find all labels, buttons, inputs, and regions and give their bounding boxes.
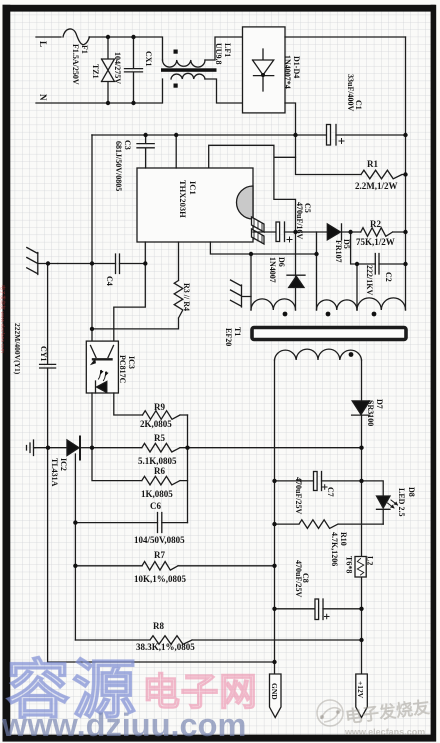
wire left vertical from top wire down to opto [91, 135, 93, 341]
wire C4 line [58, 263, 146, 265]
junction IC1 pin / C4 line [143, 261, 147, 265]
wire bottom ground link [48, 661, 275, 663]
winding stub g2 left [316, 254, 318, 310]
resistor R6 [92, 448, 188, 485]
wire top rail to IC area [91, 134, 93, 136]
svg-text:www.dziuu.com: www.dziuu.com [1, 707, 246, 743]
svg-text:104/275V: 104/275V [113, 52, 122, 84]
transformer T1 primary winding 3 [357, 298, 406, 310]
junction TL431 cathode node [90, 446, 94, 450]
svg-text:D1-D4: D1-D4 [292, 56, 301, 78]
capacitor CX1 [125, 37, 143, 103]
diode D6 1N4007 [287, 274, 305, 276]
diode D5 FR107 [327, 224, 340, 240]
svg-text:CY1: CY1 [39, 346, 48, 362]
svg-text:1N4007*4: 1N4007*4 [283, 55, 292, 89]
svg-text:R10: R10 [339, 532, 348, 546]
opto LED [97, 382, 107, 393]
+12V terminal flag [356, 674, 368, 718]
junction C1 right / HV rail [403, 133, 407, 137]
primary ground rail down to D6 [295, 232, 297, 310]
opto pin bottom-right to R9 [114, 393, 143, 415]
bridge rectifier D1-D4 box [243, 27, 286, 113]
wire primary ground horizontal (C1 line) [92, 134, 406, 136]
varistor TZ1 [102, 37, 115, 103]
svg-text:D6: D6 [277, 257, 286, 267]
TL431 IC2 [35, 447, 67, 449]
LED D8 [377, 496, 391, 508]
svg-text:R3 // R4: R3 // R4 [182, 283, 191, 311]
svg-text:C6: C6 [150, 501, 161, 511]
LED D8 arrows [388, 500, 398, 508]
resistor R9 [143, 411, 188, 420]
svg-text:R5: R5 [154, 433, 165, 443]
svg-text:GND: GND [270, 683, 279, 700]
fuse F1 [63, 29, 90, 45]
junction C8 right / +12V rail [359, 607, 363, 611]
svg-text:222M/400V(Y1): 222M/400V(Y1) [13, 323, 22, 375]
svg-text:PC817C: PC817C [118, 355, 127, 384]
svg-text:C3: C3 [123, 140, 132, 150]
resistor R8 [75, 636, 361, 645]
svg-text:104/50V,0805: 104/50V,0805 [134, 535, 185, 545]
svg-text:F1.5A/250V: F1.5A/250V [71, 44, 80, 85]
svg-text:R2: R2 [370, 219, 381, 229]
junction R7 right / GND rail [272, 564, 276, 568]
svg-text:UU9.8: UU9.8 [214, 43, 223, 65]
transformer T1 primary winding 1 [251, 299, 296, 310]
choke LF1 polarity squares [174, 50, 178, 54]
junction CX1 top [131, 35, 135, 39]
svg-text:T1: T1 [233, 327, 242, 336]
svg-text:4.7K,1206: 4.7K,1206 [330, 532, 339, 566]
capacitor C6 line [75, 522, 187, 524]
IC1 heatsink fins [252, 217, 265, 244]
wire IC pin to C4 line and opto [114, 242, 146, 341]
svg-text:TZ1: TZ1 [91, 64, 100, 79]
svg-text:电子发烧友 www.elecfans.com: 电子发烧友 www.elecfans.com [0, 285, 6, 353]
earth ground (near transformer core) [231, 280, 252, 307]
junction winding1 left stub / line B [249, 252, 253, 256]
transformer T1 primary winding 2 [317, 300, 358, 310]
junction C6 left / ref rail [73, 520, 77, 524]
junction comp line / +12V rail [359, 446, 363, 450]
wire L input [36, 36, 61, 38]
svg-text:470uF/25V: 470uF/25V [294, 477, 303, 515]
inductor L2 [355, 557, 366, 578]
snubber tap to line B [316, 232, 318, 254]
svg-text:33uF/400V: 33uF/400V [346, 74, 355, 112]
earth ground (primary input side) [27, 248, 58, 275]
C1 plus mark [339, 139, 344, 144]
+12V rail [361, 415, 363, 674]
wire bridge - output [285, 103, 296, 135]
svg-text:C7: C7 [326, 487, 335, 497]
watermark elecfans logo swirl [317, 700, 343, 726]
junction opto rail / C4 line [90, 261, 94, 265]
mini ground (TL431) [27, 440, 36, 456]
svg-text:D7: D7 [375, 399, 384, 409]
capacitor C6 [158, 513, 162, 533]
junction C8 left / GND rail [272, 607, 276, 611]
transformer polarity dots [283, 312, 288, 317]
IC1 THX203H body [137, 168, 253, 242]
junction TZ1 bottom / N line [106, 101, 110, 105]
capacitor C7 [314, 472, 318, 491]
secondary GND rail [274, 360, 276, 674]
winding stub g2/g3 junction [356, 264, 358, 310]
junction bottom link / GND rail [272, 660, 276, 664]
wire IC1 pin stub top [175, 135, 177, 168]
junction bridge negative / C1 line [293, 133, 297, 137]
svg-text:EF20: EF20 [224, 328, 233, 346]
svg-text:TL431A: TL431A [50, 458, 59, 487]
transformer T1 core [252, 328, 406, 340]
comp line R5 [92, 443, 362, 452]
wire L to choke [89, 37, 163, 60]
feedback right rail [187, 415, 189, 523]
bridge diode symbol [253, 49, 274, 91]
svg-text:R1: R1 [367, 159, 378, 169]
svg-text:1K,0805: 1K,0805 [141, 489, 173, 499]
resistor R2 [361, 228, 406, 237]
diode D7 SR3100 [361, 360, 363, 401]
opto pin bottom-left to TL431 node [91, 393, 93, 448]
capacitor CY1 [40, 364, 56, 368]
junction C7 right / +12V rail [359, 479, 363, 483]
svg-text:D8: D8 [407, 487, 416, 497]
GND terminal flag [270, 674, 282, 718]
svg-text:75K,1/2W: 75K,1/2W [356, 237, 395, 247]
junction snubber tap / line B [314, 252, 318, 256]
svg-text:SR3100: SR3100 [366, 400, 375, 426]
LED D8 branch [362, 481, 384, 496]
transformer T1 secondary winding [275, 349, 362, 360]
svg-text:R8: R8 [153, 621, 164, 631]
junction R10 left / GND rail [272, 522, 276, 526]
junction C7 left / GND rail [272, 479, 276, 483]
common-mode choke LF1 top winding [163, 60, 206, 67]
junction R1 right / HV rail [403, 172, 407, 176]
svg-text:2.2M,1/2W: 2.2M,1/2W [355, 181, 398, 191]
resistor R10 [275, 520, 384, 529]
svg-text:5.1K,0805: 5.1K,0805 [138, 456, 177, 466]
capacitor C5 [276, 222, 280, 242]
svg-text:+12V: +12V [356, 681, 365, 699]
wire choke to bridge bottom [205, 79, 243, 103]
capacitor CY1 rail [47, 264, 49, 663]
capacitor C7 line [275, 480, 362, 482]
svg-text:2K,0805: 2K,0805 [140, 419, 172, 429]
svg-text:C2: C2 [384, 272, 393, 282]
junction R5 right / feedback rail [185, 446, 189, 450]
junction R7 left / ref rail [73, 564, 77, 568]
svg-text:IC2: IC2 [59, 458, 68, 471]
wire N input [36, 79, 163, 103]
snubber drop wire to C2 [351, 232, 406, 264]
junction C5 right / primary gnd rail [293, 230, 297, 234]
junction CY1 rail / C4 line [46, 261, 50, 265]
svg-text:LED 2.5: LED 2.5 [397, 488, 406, 516]
svg-text:IC3: IC3 [127, 356, 136, 369]
svg-text:681J/50V/0805: 681J/50V/0805 [114, 141, 123, 191]
junction R3R4 return / opto rail [90, 327, 94, 331]
svg-text:FR107: FR107 [334, 240, 343, 263]
resistor R7 [75, 562, 274, 571]
horizontal value labels [134, 159, 398, 652]
capacitor C8 [315, 599, 319, 620]
wire choke to bridge top [205, 37, 243, 60]
capacitor C4 [116, 254, 120, 274]
TL431 ref rail [74, 454, 76, 640]
wire line B (IC source) [210, 242, 316, 254]
svg-text:N: N [38, 94, 48, 101]
resistor R3//R4 [92, 242, 183, 329]
wire IC1 supply route [209, 145, 296, 232]
junction IC1 top stub / top wire [174, 133, 178, 137]
svg-text:1N4007: 1N4007 [268, 257, 277, 283]
svg-text:470uF/25V: 470uF/25V [294, 560, 303, 598]
svg-text:C4: C4 [105, 276, 114, 286]
svg-text:CX1: CX1 [144, 51, 153, 67]
choke LF1 core [161, 68, 217, 72]
junction CY1 rail / comp line [46, 446, 50, 450]
svg-text:38.3K,1%,0805: 38.3K,1%,0805 [136, 642, 195, 652]
winding stub g1 left [250, 254, 252, 310]
svg-text:F1: F1 [80, 45, 89, 54]
common-mode choke LF1 bottom winding [171, 73, 205, 79]
junction C2 right / HV rail [403, 262, 407, 266]
wire bridge + output top rail [285, 36, 406, 38]
junction C3 stub / top wire [143, 133, 147, 137]
junction CX1 bottom [131, 101, 135, 105]
svg-text:L: L [38, 41, 48, 47]
opto light arrows [99, 371, 107, 381]
svg-text:L2: L2 [366, 556, 375, 565]
svg-text:LF1: LF1 [223, 43, 232, 57]
svg-text:IC1: IC1 [188, 181, 198, 195]
svg-text:R9: R9 [154, 402, 165, 412]
svg-text:T6*8: T6*8 [345, 556, 354, 573]
junction winding2-3 stub / C2 line [355, 262, 359, 266]
svg-text:R6: R6 [154, 466, 165, 476]
resistor R1 [296, 135, 406, 179]
right HV rail [405, 37, 407, 310]
capacitor C8 line [275, 608, 362, 610]
junction TZ1 top / L line [106, 35, 110, 39]
optocoupler IC3 PC817C box [86, 341, 118, 393]
svg-text:www.elecfans.com: www.elecfans.com [344, 727, 425, 737]
watermark layer [0, 285, 431, 743]
junction R8 right / +12V rail [359, 638, 363, 642]
opto phototransistor [91, 346, 114, 358]
capacitor C3 [137, 135, 154, 168]
capacitor C1 [327, 125, 331, 146]
svg-text:470uF/16V: 470uF/16V [295, 202, 304, 240]
svg-text:THX203H: THX203H [178, 180, 188, 218]
IC1 package semicircle [237, 186, 253, 219]
junction R2 right / HV rail [403, 230, 407, 234]
junction D5 cathode / R2 left [348, 230, 352, 234]
capacitor C2 [375, 254, 379, 275]
capacitor C5 line [253, 231, 327, 233]
svg-text:10K,1%,0805: 10K,1%,0805 [134, 574, 187, 584]
svg-text:222/1KV: 222/1KV [365, 265, 374, 295]
svg-text:R7: R7 [154, 550, 165, 560]
